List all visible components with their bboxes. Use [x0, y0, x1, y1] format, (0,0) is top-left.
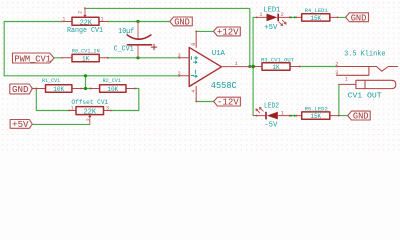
svg-text:2: 2: [281, 12, 284, 18]
svg-text:R3_CV1_OUT: R3_CV1_OUT: [261, 56, 294, 63]
wire output stub: [252, 66, 255, 68]
svg-text:15K: 15K: [311, 113, 322, 120]
op-amp U1A: [180, 31, 252, 101]
wire inverting-input row: [4, 75, 179, 77]
wire LED1 row stub: [253, 16, 257, 18]
resistor R3_CV1_OUT 1K: [255, 63, 300, 70]
svg-text:3: 3: [106, 105, 109, 111]
junction node R1/R2 row: [84, 87, 87, 90]
svg-text:R5_LED2: R5_LED2: [305, 105, 329, 112]
wire R2 right down to offset pot pin3: [111, 89, 139, 111]
wire output vertical bus: [252, 17, 254, 115]
svg-text:1: 1: [62, 16, 65, 22]
svg-text:2: 2: [86, 118, 92, 121]
svg-text:R0_CV1_IN: R0_CV1_IN: [72, 48, 100, 55]
svg-text:R2_CV1: R2_CV1: [103, 77, 122, 84]
supply flag +12V: [214, 27, 241, 36]
svg-text:PWM_CV1: PWM_CV1: [14, 54, 51, 64]
junction output/feedback tap: [248, 65, 251, 68]
LED2: [265, 112, 278, 120]
jack sleeve pin 1: [339, 83, 356, 85]
svg-text:22K: 22K: [84, 109, 97, 117]
svg-text:1K: 1K: [82, 55, 89, 62]
GND flag bottom left: [10, 84, 32, 94]
wire pin4 to -12V flag: [196, 101, 213, 103]
svg-text:+5V: +5V: [12, 120, 29, 130]
jack 3.5mm Klinke: [337, 67, 398, 89]
GND flag right top: [346, 13, 369, 22]
svg-text:GND: GND: [12, 85, 29, 95]
wire between R1 and R2: [83, 88, 92, 90]
potentiometer R_Offset 22K: [69, 107, 111, 125]
wire R4 to GND flag: [338, 16, 346, 18]
LED1: [267, 14, 280, 22]
junction node IN- row: [84, 74, 87, 77]
resistor R4_LED1 15K: [296, 14, 338, 21]
svg-text:8: 8: [191, 43, 197, 46]
svg-text:3: 3: [335, 70, 338, 76]
svg-text:U1A: U1A: [212, 50, 226, 58]
supply flag +5V: [10, 120, 32, 129]
resistor R2_CV1 10K: [92, 85, 135, 92]
junction node IN+ at C_CV1 bottom: [136, 56, 139, 59]
resistor R5_LED2 15K: [296, 112, 339, 119]
op-amp input/power marks: [191, 56, 198, 77]
svg-text:+12V: +12V: [217, 28, 239, 38]
wire pot wiper top run to output column: [85, 8, 250, 66]
svg-text:10K: 10K: [107, 86, 118, 93]
svg-text:3: 3: [178, 53, 181, 59]
svg-text:15K: 15K: [311, 15, 322, 22]
jack plug body: [356, 80, 396, 88]
LED1 emission arrows: [279, 20, 286, 25]
svg-text:LED1: LED1: [263, 6, 280, 14]
junction LED2-R5 wire ends: [290, 115, 292, 117]
svg-text:LED2: LED2: [264, 102, 279, 110]
svg-text:1: 1: [281, 110, 284, 116]
junction GND net at C_CV1 top: [136, 20, 139, 23]
LED2 emission arrows: [256, 107, 263, 112]
wire jack sleeve down to R5 row: [338, 84, 340, 115]
svg-text:GND: GND: [353, 112, 369, 122]
svg-text:Range CV1: Range CV1: [67, 27, 103, 35]
svg-text:4: 4: [191, 90, 197, 93]
svg-text:R1_CV1: R1_CV1: [42, 77, 61, 84]
resistor R0_CV1_IN 1K: [61, 54, 108, 61]
label flag PWM_CV1: [13, 53, 55, 63]
wire node vertical x=87.9: [85, 76, 87, 89]
svg-text:1: 1: [259, 12, 262, 18]
wire LED1 to R4: [290, 16, 297, 18]
svg-text:10µf: 10µf: [118, 28, 134, 36]
wire R0 out to opamp pin3: [108, 57, 180, 59]
svg-text:GND: GND: [174, 18, 190, 28]
potentiometer R_Range 22K: [61, 7, 109, 25]
svg-text:C_CV1: C_CV1: [114, 46, 134, 54]
svg-text:1: 1: [235, 61, 238, 67]
wire +5V to offset wiper: [32, 123, 90, 125]
svg-text:1K: 1K: [272, 64, 279, 71]
junction output/LED bus: [251, 65, 254, 68]
svg-text:2: 2: [77, 11, 83, 14]
supply flag -12V: [214, 97, 241, 106]
pin end dots: [31, 17, 339, 117]
svg-text:1: 1: [71, 105, 74, 111]
svg-text:GND: GND: [351, 13, 367, 23]
GND flag right bottom: [348, 111, 371, 120]
svg-text:3.5 Klinke: 3.5 Klinke: [344, 51, 385, 59]
svg-text:R4_LED1: R4_LED1: [305, 7, 329, 14]
wire PWM_CV1 tip to R0 pin: [54, 57, 63, 59]
jack tip contact pin 2: [337, 67, 398, 72]
wire GND node down to offset pot pin1: [32, 89, 69, 111]
wire R5 to GND flag: [339, 115, 348, 117]
capacitor C_CV1 10uf: [137, 22, 139, 40]
svg-text:+5V: +5V: [264, 24, 278, 32]
wire pot right pin to GND flag: [108, 21, 170, 23]
svg-text:4558C: 4558C: [211, 81, 237, 91]
resistor R1_CV1 10K: [32, 85, 84, 92]
wire LED2 to R5: [290, 115, 297, 117]
svg-text:1: 1: [101, 16, 104, 22]
junction LED1-R4 wire ends: [290, 16, 292, 18]
wire R3 to jack tip pin: [300, 66, 338, 68]
wire feedback-node left vertical + pot row: [4, 22, 62, 76]
svg-text:-5V: -5V: [264, 121, 278, 129]
svg-text:Offset CV1: Offset CV1: [71, 99, 108, 106]
GND flag top middle: [170, 17, 193, 26]
svg-text:-12V: -12V: [217, 98, 239, 108]
jack ring contact pin 3: [337, 67, 369, 75]
svg-text:10K: 10K: [53, 86, 64, 93]
svg-text:CV1 OUT: CV1 OUT: [348, 93, 383, 101]
wire pin8 to +12V flag: [196, 30, 213, 32]
plus mark of C_CV1: [151, 44, 156, 49]
svg-text:1: 1: [345, 76, 348, 82]
svg-text:2: 2: [335, 61, 338, 67]
svg-text:2: 2: [178, 71, 181, 77]
